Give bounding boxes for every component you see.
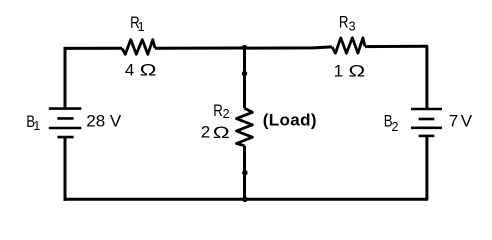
- svg-text:(Load): (Load): [263, 110, 317, 129]
- wire middle branch upper (top node to R2): [243, 48, 246, 108]
- wire left side lower (B1 - down to bottom wire): [64, 137, 67, 201]
- resistor R3: [332, 38, 365, 53]
- label B2 designator: [384, 112, 399, 134]
- wire bottom: [64, 198, 429, 201]
- resistor R2 (load): [236, 108, 252, 146]
- label R2 designator: [213, 102, 229, 122]
- wire top-left segment (B1 to R1): [64, 47, 123, 50]
- wire left side upper (top wire down to B1 +): [64, 47, 67, 109]
- svg-text:2: 2: [392, 120, 399, 134]
- label B2 value 7 V: [449, 111, 473, 130]
- svg-text:Ω: Ω: [140, 61, 157, 80]
- svg-text:3: 3: [349, 20, 356, 34]
- svg-text:2: 2: [223, 107, 230, 121]
- resistor R1: [122, 40, 155, 55]
- label R1 designator: [130, 13, 145, 34]
- node load lower terminal: [242, 170, 248, 176]
- svg-text:1: 1: [138, 20, 145, 34]
- svg-text:1: 1: [334, 62, 343, 81]
- label B1 designator: [26, 113, 40, 133]
- wire R3 to top-right corner: [365, 45, 428, 48]
- wire right side upper (top wire down to B2 +): [425, 46, 428, 109]
- label R3 value 1 Ohm: [334, 62, 366, 81]
- svg-text:V: V: [461, 111, 473, 130]
- wire top node to R3: [245, 47, 333, 48]
- label R3 designator: [339, 13, 356, 34]
- svg-text:R: R: [339, 13, 349, 32]
- svg-text:Ω: Ω: [213, 123, 230, 142]
- svg-text:Ω: Ω: [348, 62, 365, 81]
- wire middle branch lower (R2 to bottom node): [243, 146, 246, 200]
- label R2 value 2 Ohm: [201, 122, 230, 142]
- label R1 value 4 Ohm: [125, 61, 157, 80]
- battery B1: [49, 109, 82, 138]
- svg-text:28 V: 28 V: [86, 111, 122, 130]
- battery B2: [411, 109, 442, 136]
- node top junction (top wire / load branch): [242, 45, 248, 51]
- svg-text:2: 2: [201, 122, 210, 141]
- svg-text:4: 4: [125, 61, 134, 80]
- wire R1 to top node: [155, 47, 245, 50]
- wire right side lower (B2 - down to bottom wire): [425, 136, 428, 199]
- node load upper terminal: [242, 71, 248, 77]
- svg-text:1: 1: [33, 119, 40, 133]
- node bottom junction (bottom wire / load branch): [242, 197, 248, 203]
- svg-text:R: R: [213, 102, 223, 121]
- svg-text:7: 7: [449, 112, 458, 131]
